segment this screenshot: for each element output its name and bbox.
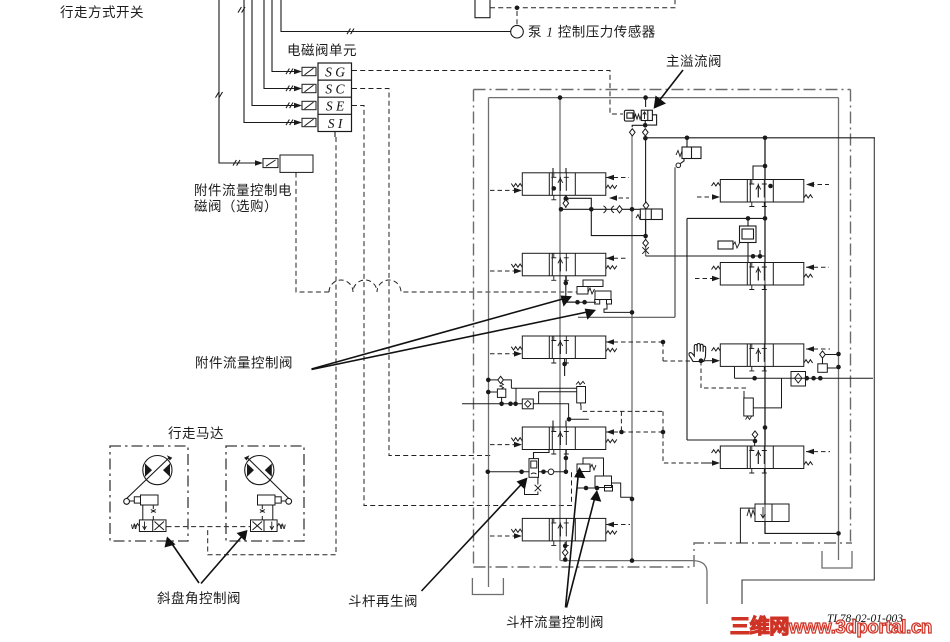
svg-text:主溢流阀: 主溢流阀 bbox=[666, 54, 722, 69]
svg-text:泵 1 控制压力传感器: 泵 1 控制压力传感器 bbox=[528, 24, 656, 40]
svg-text:S E: S E bbox=[326, 99, 345, 114]
svg-text:斗杆流量控制阀: 斗杆流量控制阀 bbox=[506, 615, 604, 630]
svg-text:S G: S G bbox=[325, 65, 345, 80]
svg-text:斗杆再生阀: 斗杆再生阀 bbox=[348, 594, 418, 609]
svg-text:S I: S I bbox=[328, 116, 344, 131]
svg-text:电磁阀单元: 电磁阀单元 bbox=[287, 43, 357, 58]
svg-text:斜盘角控制阀: 斜盘角控制阀 bbox=[157, 590, 241, 606]
svg-text:磁阀（选购）: 磁阀（选购） bbox=[194, 199, 278, 214]
svg-text:行走马达: 行走马达 bbox=[168, 426, 224, 441]
svg-text:三维网www.3dportal.cn: 三维网www.3dportal.cn bbox=[730, 614, 932, 638]
svg-text:w: w bbox=[130, 522, 138, 531]
svg-text:附件流量控制阀: 附件流量控制阀 bbox=[195, 356, 293, 371]
svg-text:w: w bbox=[279, 522, 287, 531]
svg-text:行走方式开关: 行走方式开关 bbox=[60, 5, 144, 20]
svg-text:附件流量控制电: 附件流量控制电 bbox=[194, 183, 292, 198]
svg-text:S C: S C bbox=[325, 82, 345, 97]
